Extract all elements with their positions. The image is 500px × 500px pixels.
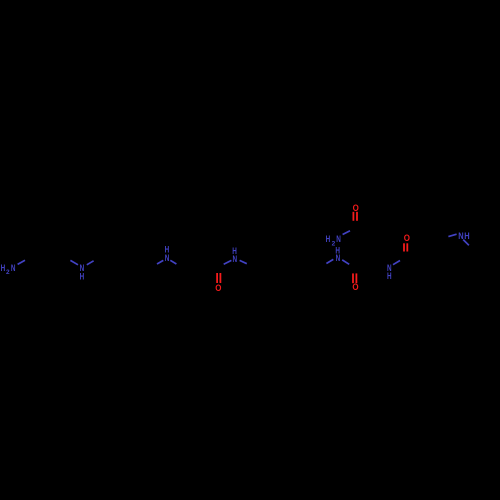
wire C-N3 left stub xyxy=(157,260,163,264)
svg-text:N: N xyxy=(336,253,341,263)
wire N2-C right stub xyxy=(87,261,94,265)
amine N2 label N/H xyxy=(80,263,85,282)
wire C(=O)-N4 left stub xyxy=(224,260,232,264)
wire C-N6 left stub xyxy=(326,259,333,263)
svg-text:H: H xyxy=(80,272,85,282)
amide N5 label H2N (top amide) xyxy=(326,234,341,247)
svg-text:O: O xyxy=(404,233,410,243)
amide N7 label N/H xyxy=(387,263,392,281)
amide N4 label H/N xyxy=(232,246,237,264)
svg-text:N: N xyxy=(165,253,170,263)
svg-text:N: N xyxy=(336,234,341,244)
wire N4-C right stub xyxy=(240,260,247,263)
svg-text:H: H xyxy=(464,231,470,241)
carbonyl C2=O2 double bond red halves xyxy=(352,212,354,221)
wire C-N8 left stub xyxy=(448,234,456,236)
amine N3 label H/N xyxy=(165,245,170,263)
svg-text:O: O xyxy=(353,203,359,213)
svg-text:H: H xyxy=(387,271,392,281)
carbonyl C3=O3 double bond red halves xyxy=(352,273,354,283)
wire N3-C right stub xyxy=(170,260,176,264)
svg-text:O: O xyxy=(215,283,221,293)
carbonyl C1=O1 double bond red halves xyxy=(216,273,218,283)
wire C-N2 left stub xyxy=(70,260,78,264)
svg-text:2: 2 xyxy=(6,269,10,276)
svg-text:N: N xyxy=(11,263,16,273)
wire N7-C4 stub xyxy=(393,261,400,265)
indole N8 label NH xyxy=(458,231,470,241)
svg-text:O: O xyxy=(352,282,358,292)
svg-text:H: H xyxy=(1,263,6,273)
wire N1-C bond stub xyxy=(18,260,25,264)
wire N6-C3 right stub xyxy=(342,260,349,264)
wire N5-C2 stub xyxy=(343,231,350,235)
svg-text:N: N xyxy=(458,231,464,241)
svg-text:H: H xyxy=(326,234,331,244)
carbonyl C4=O4 double bond red halves xyxy=(403,243,405,251)
wire N8-C right stub xyxy=(463,240,469,246)
svg-text:N: N xyxy=(233,254,238,264)
amine N1 label H2N xyxy=(1,263,16,276)
amide N6 label H/N (central) xyxy=(335,246,340,263)
